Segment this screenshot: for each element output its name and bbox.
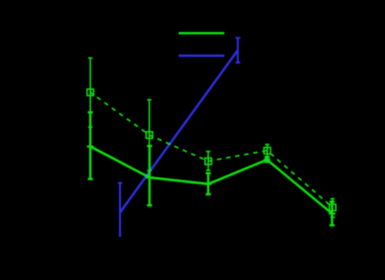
solid error bar E5 xyxy=(330,202,335,226)
solid error bar E4 xyxy=(265,157,270,162)
blue error bar right xyxy=(236,38,241,63)
blue series line xyxy=(120,50,238,212)
legend sample: blue series xyxy=(179,55,225,57)
legend sample: green solid series xyxy=(179,32,225,34)
solid error bar E3 xyxy=(206,173,211,194)
green dashed series polyline xyxy=(90,92,332,207)
blue error bar left (clipped at bottom border) xyxy=(118,183,122,237)
dashed error bar F3 xyxy=(206,151,210,170)
dashed error bar F2 xyxy=(147,100,151,171)
solid error bar E1 xyxy=(88,112,93,179)
dashed series square markers xyxy=(87,89,336,211)
dashed error bar F5 xyxy=(330,199,334,218)
solid series plus markers xyxy=(87,147,335,214)
dashed error bar F1 xyxy=(88,58,92,127)
green solid series polyline xyxy=(90,147,332,214)
solid error bar E2 xyxy=(147,146,152,205)
dashed error bar F4 xyxy=(265,145,269,157)
